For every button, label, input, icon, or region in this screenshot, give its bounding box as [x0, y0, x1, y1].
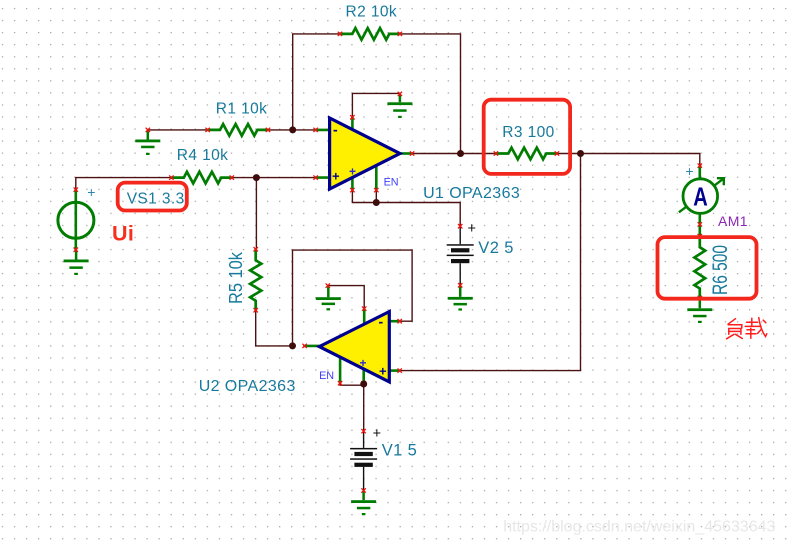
svg-text:V1 5: V1 5: [382, 441, 418, 459]
svg-text:+: +: [379, 364, 387, 379]
svg-text:+: +: [332, 169, 340, 184]
svg-text:+: +: [685, 163, 693, 179]
svg-text:A: A: [693, 181, 708, 211]
svg-text:+: +: [349, 165, 356, 179]
svg-text:EN: EN: [384, 177, 399, 189]
svg-text:-: -: [333, 122, 338, 138]
svg-text:EN: EN: [319, 370, 334, 382]
svg-text:Ui: Ui: [112, 222, 134, 246]
svg-text:R4 10k: R4 10k: [177, 147, 229, 164]
svg-text:V2 5: V2 5: [478, 239, 514, 257]
svg-text:+: +: [360, 356, 367, 370]
svg-text:+: +: [87, 184, 95, 200]
svg-text:R2 10k: R2 10k: [346, 3, 398, 20]
svg-text:https://blog.csdn.net/weixin_4: https://blog.csdn.net/weixin_45633643: [503, 519, 775, 536]
svg-text:-: -: [379, 314, 384, 330]
svg-text:R5 10k: R5 10k: [226, 251, 246, 304]
svg-text:+: +: [467, 221, 475, 237]
svg-text:+: +: [373, 426, 381, 442]
svg-text:R1 10k: R1 10k: [216, 100, 268, 117]
svg-text:R6 500: R6 500: [709, 245, 732, 295]
svg-text:VS1 3.3: VS1 3.3: [127, 190, 185, 207]
svg-text:R3 100: R3 100: [502, 124, 554, 141]
svg-text:U2 OPA2363: U2 OPA2363: [199, 378, 296, 395]
svg-text:U1 OPA2363: U1 OPA2363: [423, 185, 520, 202]
svg-text:AM1: AM1: [718, 213, 748, 229]
